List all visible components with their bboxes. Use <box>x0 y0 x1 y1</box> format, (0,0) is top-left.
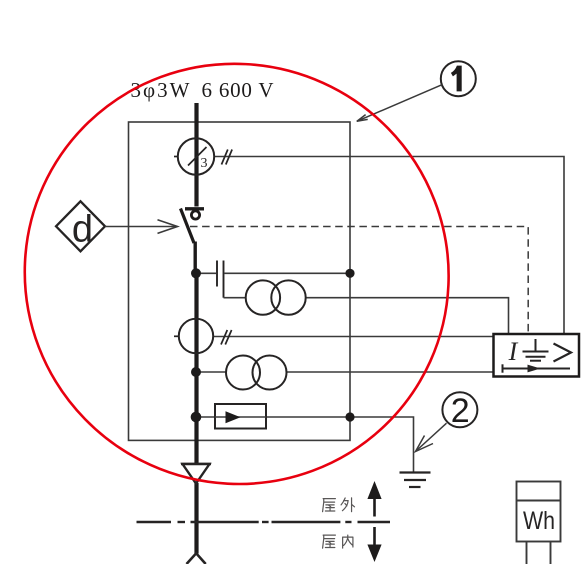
svg-text:2: 2 <box>451 392 470 430</box>
svg-text:I: I <box>508 337 519 366</box>
svg-text:Wh: Wh <box>523 507 555 535</box>
svg-text:6 600 V: 6 600 V <box>202 78 274 102</box>
svg-text:3: 3 <box>201 156 208 171</box>
svg-text:d: d <box>72 209 93 251</box>
svg-text:3φ3W: 3φ3W <box>131 78 190 102</box>
